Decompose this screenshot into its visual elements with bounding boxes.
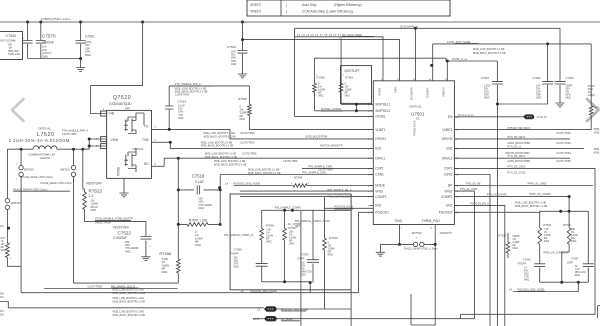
wire U7501 left nets	[302, 167, 373, 169]
svg-text:CCM Auto Skip (Lower Efficienc: CCM Auto Skip (Lower Efficiency)	[302, 10, 353, 14]
svg-text:PLACE_NEAR-L7520-1.5mm: PLACE_NEAR-L7520-1.5mm	[13, 187, 47, 191]
wire thrm down	[411, 244, 435, 325]
svg-text:PTN_SS_DRVL: PTN_SS_DRVL	[508, 155, 526, 158]
svg-text:VIN: VIN	[109, 112, 115, 116]
wire COMP2	[454, 197, 569, 212]
resistor R7547	[178, 223, 220, 225]
svg-text:OCSKRA: OCSKRA	[410, 87, 414, 100]
node R7547-L	[177, 223, 180, 226]
svg-text:OCSEL: OCSEL	[375, 115, 386, 119]
svg-text:4700PF: 4700PF	[518, 262, 527, 265]
svg-text:VREF2: VREF2	[442, 87, 446, 97]
svg-text:0201: 0201	[575, 274, 581, 277]
svg-text:C7530: C7530	[227, 45, 236, 49]
svg-text:0402: 0402	[524, 279, 530, 282]
svg-text:VSW: VSW	[111, 138, 120, 142]
svg-text:R7547 1.00K: R7547 1.00K	[189, 219, 208, 223]
svg-text:VFB1: VFB1	[375, 189, 383, 193]
svg-text:COMP1: COMP1	[375, 195, 387, 199]
svg-text:0402: 0402	[544, 240, 550, 243]
svg-text:VRA: VRA	[393, 87, 397, 93]
resistor R7545	[249, 86, 373, 130]
svg-text:MCB_L: MCB_L	[594, 107, 600, 109]
svg-text:0402: 0402	[345, 95, 351, 98]
op-amp U7501 box	[373, 81, 454, 225]
svg-text:R7543: R7543	[329, 236, 338, 240]
jumper EMT521	[73, 149, 75, 283]
svg-text:MCB_LOW_BOOTR:1-1 NE: MCB_LOW_BOOTR:1-1 NE	[473, 48, 505, 51]
capacitor C7514	[168, 86, 170, 129]
svg-text:1M: 1M	[0, 314, 3, 317]
svg-text:PTN_SS_CSP2: PTN_SS_CSP2	[508, 165, 526, 168]
svg-text:0402: 0402	[512, 247, 518, 250]
resistor R7535	[507, 233, 509, 258]
svg-text:25V: 25V	[8, 45, 13, 47]
svg-text:C7514: C7514	[177, 100, 186, 104]
svg-text:P05_SAMPLE_COMP1_R: P05_SAMPLE_COMP1_R	[224, 234, 254, 237]
svg-text:C1075-TR5A: C1075-TR5A	[556, 152, 571, 155]
node caps2	[496, 103, 499, 106]
wire DRVL2	[454, 157, 570, 159]
svg-text:EN2: EN2	[446, 147, 452, 151]
svg-text:0402: 0402	[125, 250, 131, 253]
svg-text:EMT521: EMT521	[61, 169, 71, 172]
svg-text:CSP2: CSP2	[444, 167, 453, 171]
wire PGOOD2 net top	[539, 211, 541, 282]
svg-text:0402: 0402	[289, 243, 295, 246]
svg-text:C7541: C7541	[85, 35, 95, 39]
svg-text:LM: LM	[0, 225, 3, 228]
svg-text:MCB_BACK_BOOTR:1-1 NE: MCB_BACK_BOOTR:1-1 NE	[515, 205, 548, 208]
net tag EN	[523, 114, 534, 119]
wire U7501 gnd	[399, 225, 401, 245]
svg-text:NET: NET	[295, 225, 300, 228]
svg-text:0402: 0402	[536, 97, 542, 100]
svg-text:CSD5487IQ3D: CSD5487IQ3D	[109, 102, 132, 106]
node rail-C7540	[26, 21, 29, 24]
ground U7501	[379, 244, 381, 252]
label place near 3	[13, 187, 70, 191]
svg-text:MCB_B: MCB_B	[594, 151, 600, 154]
svg-text:C7546: C7546	[523, 258, 531, 262]
svg-text:PP5V18_SW_DRV2: PP5V18_SW_DRV2	[508, 127, 531, 130]
svg-text:PLACE_NEAR-L7520-1.5mm: PLACE_NEAR-L7520-1.5mm	[21, 176, 52, 179]
svg-text:CSP1: CSP1	[375, 167, 384, 171]
svg-text:0.1UF: 0.1UF	[195, 180, 204, 184]
left nav chevron	[12, 99, 24, 121]
node comp2-d	[577, 281, 580, 284]
svg-text:CRITICAL: CRITICAL	[38, 126, 51, 130]
svg-text:PTN_SS_CSN2: PTN_SS_CSN2	[508, 171, 526, 174]
wire Q7520 VIN	[91, 22, 143, 114]
svg-text:P05_SAMPLE_COMP: P05_SAMPLE_COMP	[328, 195, 353, 198]
node skipsel-a	[355, 103, 358, 106]
svg-text:R7534: R7534	[543, 223, 551, 227]
resistor R7522	[83, 192, 87, 210]
svg-text:PLACE_NEAR-U7501_0.5mm: PLACE_NEAR-U7501_0.5mm	[404, 248, 438, 251]
ground caps	[76, 68, 85, 72]
svg-text:C7545: C7545	[481, 76, 490, 80]
svg-text:1A: 1A	[240, 289, 243, 293]
svg-text:R7561: R7561	[345, 76, 354, 80]
wire EN2r	[454, 205, 504, 326]
svg-text:EMT520: EMT520	[24, 169, 34, 172]
svg-text:EN1: EN1	[375, 204, 381, 208]
svg-text:10UF-0.22OHM: 10UF-0.22OHM	[0, 40, 16, 43]
svg-text:U7501: U7501	[411, 112, 425, 117]
capacitor C7540	[27, 22, 29, 59]
wire skipsel2	[295, 104, 374, 116]
svg-text:SWITCH_BOOS/TR: SWITCH_BOOS/TR	[320, 145, 343, 148]
svg-text:1M: 1M	[0, 296, 3, 299]
wire SW left stub	[7, 149, 21, 153]
resistor R7543	[324, 197, 326, 290]
wire BG drop	[177, 158, 179, 259]
wire OCSKRA right	[559, 28, 561, 103]
node gnd-a	[398, 243, 401, 246]
svg-text:0402: 0402	[266, 241, 272, 244]
svg-text:4700PF: 4700PF	[230, 252, 240, 256]
svg-text:BG: BG	[144, 162, 149, 166]
svg-text:MCB_BACK_BOOTR:1-1 NE: MCB_BACK_BOOTR:1-1 NE	[113, 314, 146, 317]
svg-text:TGB: TGB	[142, 138, 149, 142]
node comp-a	[283, 209, 286, 212]
svg-text:Auto Skip: Auto Skip	[302, 3, 317, 7]
svg-text:13303/TR?: 13303/TR?	[439, 232, 452, 235]
svg-text:PGOOD1: PGOOD1	[375, 211, 389, 215]
wire LL2	[454, 147, 584, 149]
capacitor C7518	[178, 189, 220, 191]
wire net bottom2	[0, 302, 264, 308]
svg-text:C1075-TR5A: C1075-TR5A	[242, 153, 257, 156]
wire BP	[454, 185, 593, 187]
svg-text:0402: 0402	[178, 117, 184, 120]
svg-text:EN2: EN2	[446, 204, 452, 208]
svg-text:1000UF: 1000UF	[42, 41, 54, 45]
svg-text:MCB_LOW_BOOTR:1-1 NE: MCB_LOW_BOOTR:1-1 NE	[515, 201, 547, 204]
wire TGB-LL1	[152, 142, 374, 148]
inductor L7520	[21, 146, 89, 149]
node TGB	[169, 141, 172, 144]
resistor R7536	[261, 210, 263, 263]
svg-text:C7526: C7526	[566, 76, 575, 80]
svg-text:(Higher Efficiency): (Higher Efficiency)	[334, 3, 362, 7]
node BG tap	[177, 157, 180, 160]
node SW-L	[20, 148, 23, 151]
capacitor C7547	[587, 211, 589, 282]
svg-text:P05_SAMPLE_COMP1: P05_SAMPLE_COMP1	[275, 206, 302, 209]
svg-text:MODE: MODE	[375, 184, 385, 188]
svg-text:C7547: C7547	[571, 257, 579, 261]
right nav chevron	[587, 99, 599, 121]
wire thrm pad	[434, 225, 436, 245]
svg-text:C1075-TR5A: C1075-TR5A	[62, 133, 77, 136]
svg-text:GND: GND	[395, 219, 403, 223]
node SW-R2	[81, 148, 84, 151]
svg-text:2.2: 2.2	[89, 194, 94, 198]
svg-text:EMT523: EMT523	[412, 231, 422, 235]
svg-text:PGOOD3_EN_A: PGOOD3_EN_A	[470, 203, 489, 206]
wire inner frame left	[300, 211, 302, 326]
transistor Q7520 upper FET	[124, 117, 128, 131]
resistor R7561	[340, 40, 342, 105]
svg-text:C1075-TR5A: C1075-TR5A	[88, 285, 103, 288]
svg-text:41 xx xx xx xx: 41 xx xx xx xx	[458, 114, 474, 117]
svg-text:-1%: -1%	[8, 48, 12, 50]
node left branch	[7, 227, 10, 230]
resistor R7534	[538, 228, 542, 245]
jumper EMT523	[380, 243, 435, 245]
svg-text:CSN2: CSN2	[444, 173, 453, 177]
svg-text:C1075-TR5A: C1075-TR5A	[175, 94, 190, 97]
svg-text:CRITICAL: CRITICAL	[132, 147, 144, 151]
svg-text:C7597: C7597	[301, 252, 310, 256]
svg-text:0402: 0402	[198, 206, 204, 210]
wire VFB1	[240, 190, 373, 192]
node COMP2	[568, 195, 571, 198]
svg-text:EN1: EN1	[375, 147, 381, 151]
svg-text:BP: BP	[448, 184, 452, 188]
svg-text:THRM_PAD: THRM_PAD	[422, 219, 441, 223]
svg-text:NOSTUFF: NOSTUFF	[345, 69, 360, 73]
svg-text:MCB_BACK_BOOTR:1-1 NE: MCB_BACK_BOOTR:1-1 NE	[113, 292, 146, 295]
svg-text:V15M: V15M	[378, 88, 382, 96]
svg-text:CSN1: CSN1	[375, 173, 384, 177]
node comp2-b	[568, 210, 571, 213]
wire comp2 bottom	[540, 281, 589, 283]
wire net bottom3	[253, 318, 475, 320]
transistor Q7520 lower FET	[124, 152, 128, 166]
ground C7530	[238, 74, 247, 78]
svg-text:SKIPSEL1: SKIPSEL1	[375, 103, 390, 107]
svg-text:42 43 44 45 46 47 48 49 50 51: 42 43 44 45 46 47 48 49 50 51	[297, 35, 342, 37]
svg-text:17 19 10: 17 19 10	[537, 115, 548, 119]
wire pgood2 exit	[513, 282, 578, 291]
svg-text:1A: 1A	[257, 307, 260, 311]
ground Q7520 PGND	[123, 178, 125, 193]
svg-text:C1075-TR5A: C1075-TR5A	[283, 160, 298, 163]
svg-text:R7548: R7548	[294, 176, 303, 180]
svg-text:0402: 0402	[234, 266, 240, 269]
wire CSN1	[220, 174, 373, 176]
svg-text:C7540: C7540	[6, 34, 17, 38]
svg-text:PTN_SS_NE: PTN_SS_NE	[466, 183, 481, 186]
node gnd-b	[434, 243, 437, 246]
capacitor C7596	[261, 266, 263, 282]
svg-text:NOSTUFF: NOSTUFF	[86, 182, 102, 186]
wire R7556 bottom	[74, 273, 179, 283]
node skipsel-b	[355, 109, 358, 112]
node VSW-a	[88, 138, 91, 141]
svg-text:MCB_BACK_BOOTR:1-1 NE: MCB_BACK_BOOTR:1-1 NE	[201, 145, 234, 148]
capacitor C7597	[312, 210, 314, 282]
svg-text:GATE_BOOS/TR5B: GATE_BOOS/TR5B	[508, 160, 531, 163]
svg-text:GATE_BOOS/TR5B: GATE_BOOS/TR5B	[508, 142, 531, 145]
svg-text:C7522: C7522	[118, 230, 132, 235]
svg-text:Q7520: Q7520	[113, 95, 131, 101]
resistor R7513	[6, 243, 10, 258]
svg-text:PTN_SAMPLE_CSN1: PTN_SAMPLE_CSN1	[302, 172, 327, 175]
svg-text:VFB2: VFB2	[444, 189, 452, 193]
wire CSKRA	[433, 44, 592, 81]
svg-text:DRVH2: DRVH2	[442, 137, 453, 141]
wire EN tag	[454, 116, 522, 118]
node VSW-b	[88, 145, 91, 148]
svg-text:0603: 0603	[484, 97, 490, 100]
node C7518-L	[177, 188, 180, 191]
svg-text:EN: EN	[448, 115, 453, 119]
svg-text:DRVH1: DRVH1	[375, 137, 386, 141]
svg-text:52 53 54 PM_xx: 52 53 54 PM_xx	[400, 25, 419, 28]
wire caps2 bottom	[497, 103, 547, 105]
svg-text:TAND-LOW: TAND-LOW	[8, 53, 21, 56]
svg-text:MCB_BACK_BOOTR:1-1 NE: MCB_BACK_BOOTR:1-1 NE	[214, 163, 247, 166]
svg-text:0402: 0402	[195, 243, 201, 247]
svg-text:TPS51427A: TPS51427A	[413, 120, 417, 136]
svg-text:PP5V_SX_COMP2: PP5V_SX_COMP2	[529, 193, 551, 196]
svg-text:PTN_SAMPLE_CSP1: PTN_SAMPLE_CSP1	[308, 165, 333, 168]
svg-text:C7518: C7518	[192, 174, 205, 179]
svg-text:PGOOD2: PGOOD2	[439, 211, 453, 215]
wire PGOOD1	[359, 212, 374, 292]
transistor Q7520 box	[107, 110, 152, 178]
wire PGOOD1 bottom	[21, 292, 358, 294]
node comp-d	[309, 281, 312, 284]
svg-text:DRVL1: DRVL1	[375, 156, 385, 160]
node SW-R	[72, 148, 75, 151]
svg-text:22PF: 22PF	[567, 262, 573, 265]
wire CSN2	[454, 175, 490, 326]
wire R7522 top	[83, 149, 85, 192]
svg-text:+: +	[23, 36, 25, 40]
svg-text:0603: 0603	[85, 53, 91, 57]
svg-text:PP5V_SX_VFB2: PP5V_SX_VFB2	[528, 183, 547, 186]
svg-text:PTN_SS_DRV2: PTN_SS_DRV2	[508, 136, 526, 139]
resistor R7537	[284, 210, 286, 281]
svg-text:0402: 0402	[162, 270, 168, 274]
wire C7518-R7547 right	[219, 175, 221, 225]
node rail-C7570	[39, 21, 42, 24]
wire CSP2	[454, 168, 595, 318]
svg-text:0402: 0402	[231, 63, 237, 66]
svg-text:1A: 1A	[509, 288, 512, 292]
wire skipsel riser	[294, 28, 296, 116]
svg-text:C1075-TR5A: C1075-TR5A	[556, 142, 571, 145]
capacitor C7520	[547, 44, 549, 104]
wire VFB2	[454, 191, 474, 319]
wire corner right-edge	[598, 306, 600, 319]
svg-text:C1075-TR5A: C1075-TR5A	[556, 132, 571, 135]
svg-text:0402: 0402	[91, 208, 97, 212]
node VREF2pin	[446, 60, 449, 63]
wire COMP1	[240, 196, 373, 198]
op-amp U7501 pin stubs	[370, 103, 374, 105]
svg-text:R7533: R7533	[563, 223, 571, 227]
svg-text:DRVL2: DRVL2	[442, 156, 452, 160]
capacitor C7540 label box	[0, 32, 23, 60]
wire BG-DRVL1	[152, 158, 374, 166]
svg-text:R7536: R7536	[266, 224, 275, 228]
node rail-Q7520VIN	[141, 21, 144, 24]
node comp-c	[283, 280, 286, 283]
svg-text:P05_SAMPLE_NE_A: P05_SAMPLE_NE_A	[328, 189, 352, 192]
svg-text:LM: LM	[416, 118, 419, 121]
svg-text:MCB_BACK_BOOTR:1-1 NE: MCB_BACK_BOOTR:1-1 NE	[203, 136, 236, 139]
svg-text:PTN_SS_COMP2: PTN_SS_COMP2	[487, 194, 508, 197]
wire net bottom1	[44, 288, 178, 290]
svg-text:VNBT1: VNBT1	[375, 128, 386, 132]
net tag T3	[264, 316, 277, 321]
node OCSKRA	[414, 27, 417, 30]
svg-text:|: |	[286, 3, 287, 7]
capacitor C7522	[140, 237, 151, 240]
svg-text:PTN_SS_VFB2: PTN_SS_VFB2	[460, 188, 478, 191]
wire v15m rail	[295, 37, 384, 81]
wire PGOOD2	[454, 211, 588, 212]
wire R7522-C7522	[85, 210, 146, 257]
capacitor C7541	[80, 22, 82, 59]
wire VREF2pin	[315, 58, 498, 81]
node rail-C7530	[241, 21, 244, 24]
svg-text:C1075-TR5A: C1075-TR5A	[240, 141, 255, 144]
net tag T2	[264, 306, 277, 311]
svg-text:1/16W: 1/16W	[588, 94, 596, 97]
jumper EMT520	[20, 149, 22, 293]
svg-text:NOSTUFF: NOSTUFF	[113, 225, 129, 229]
svg-text:PGOOD3_EN_A: PGOOD3_EN_A	[334, 205, 353, 208]
svg-text:CSKRA: CSKRA	[425, 88, 429, 98]
node comp2-a	[559, 210, 562, 213]
wire boot rail	[169, 85, 249, 87]
resistor R7548	[293, 184, 307, 188]
wire comp bottom	[262, 282, 311, 293]
svg-text:R7556: R7556	[159, 251, 172, 256]
capacitor C7526	[555, 81, 566, 84]
wire VNBT2	[454, 129, 591, 131]
svg-text:C1075-TR5A: C1075-TR5A	[240, 132, 255, 135]
node R7547-R	[219, 223, 222, 226]
svg-text:1A: 1A	[225, 182, 228, 186]
node TG-C7514	[168, 128, 171, 131]
svg-text:PP5V_SX_COMP2_R: PP5V_SX_COMP2_R	[543, 252, 568, 255]
svg-text:MCB_BACK_BOOTR:1-1 NE: MCB_BACK_BOOTR:1-1 NE	[113, 300, 146, 303]
svg-text:CRITICAL: CRITICAL	[409, 105, 422, 109]
svg-text:0402: 0402	[1, 249, 7, 252]
resistor R7533	[562, 211, 569, 282]
svg-text:COMBINATION#1-OM: COMBINATION#1-OM	[29, 152, 55, 156]
box comp boundary	[230, 194, 351, 290]
node rail-C7541	[79, 21, 82, 24]
ground C7522	[141, 257, 150, 261]
svg-text:|: |	[286, 10, 287, 14]
svg-text:VREF3: VREF3	[250, 10, 261, 14]
node CSN1 tap	[218, 186, 221, 189]
wire caps bottom	[28, 59, 81, 68]
svg-text:VALET#4: VALET#4	[40, 157, 51, 160]
node C7530-VRA	[241, 38, 244, 41]
svg-text:0402: 0402	[571, 240, 577, 243]
svg-text:TG: TG	[144, 125, 149, 129]
capacitor C7530	[238, 51, 248, 54]
table VREF2/VREF3 note	[247, 0, 450, 16]
svg-text:MCB_BACK_BOOTR:1-1 NE: MCB_BACK_BOOTR:1-1 NE	[473, 52, 506, 55]
capacitor C7545	[496, 61, 498, 104]
resistor R7540	[590, 44, 592, 130]
svg-text:VNBT2: VNBT2	[442, 128, 453, 132]
wire MODE	[265, 185, 374, 187]
node CSKRA tap	[430, 64, 433, 67]
svg-text:R7560: R7560	[317, 76, 326, 80]
